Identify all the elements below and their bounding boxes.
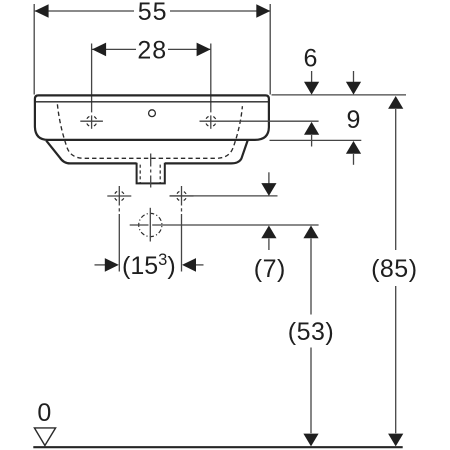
dimension (15³): right arrow with tail bbox=[195, 264, 204, 266]
svg-text:55: 55 bbox=[138, 0, 168, 26]
dimension 6: bottom arrow with tail bbox=[311, 135, 313, 147]
left faucet hole crosshair bbox=[80, 116, 103, 127]
dimension 55: right arrow bbox=[256, 4, 270, 18]
dimension 9: top arrow with tail bbox=[353, 71, 355, 83]
trap hidden circle (dashed) bbox=[139, 213, 162, 236]
dimension (7): bottom arrow with tail bbox=[268, 239, 270, 251]
dimension (7): bottom extension line (trap center level) bbox=[130, 224, 149, 226]
extension line A (basin top level, right) bbox=[272, 94, 407, 96]
left fixing hole crosshair bbox=[107, 191, 131, 201]
extension line C (rim bottom level, right) bbox=[270, 139, 362, 141]
dimension 9: bottom arrow with tail bbox=[353, 154, 355, 165]
bowl hidden contour (dashed) bbox=[57, 104, 242, 158]
fixing hole extension line left bbox=[118, 186, 120, 272]
floor line bbox=[33, 446, 402, 448]
washbasin apron right slope bbox=[165, 141, 248, 164]
dimension 6: top arrow with tail bbox=[311, 71, 313, 83]
svg-text:28: 28 bbox=[137, 36, 167, 64]
dimension (15³): left arrow with tail bbox=[95, 264, 107, 266]
dimension 55: left arrow bbox=[35, 4, 49, 18]
dimension 55: extension line right bbox=[269, 4, 271, 95]
dimension 28: extension line right (to right faucet hole) bbox=[210, 44, 212, 113]
dimension 55: dimension line bbox=[35, 10, 134, 12]
svg-text:(85): (85) bbox=[371, 255, 417, 283]
dimension (85): dimension line with top/bottom arrows bbox=[395, 109, 397, 250]
washbasin rim body outline bbox=[35, 95, 269, 139]
svg-text:(53): (53) bbox=[288, 318, 334, 346]
svg-text:0: 0 bbox=[37, 399, 51, 427]
drain bore hidden lines (dashed) bbox=[139, 165, 141, 183]
dimension (53): dimension line with top/bottom arrows bbox=[310, 239, 312, 315]
right fixing hole crosshair bbox=[170, 191, 194, 201]
dimension (7): top arrow with tail bbox=[268, 172, 270, 184]
svg-text:9: 9 bbox=[347, 106, 361, 134]
drain stub outline bbox=[137, 163, 165, 184]
right faucet hole crosshair bbox=[200, 116, 319, 127]
dimension 28: right arrow bbox=[197, 43, 211, 57]
washbasin inner rim line bbox=[36, 101, 268, 103]
dimension 28: extension line left (to left faucet hole) bbox=[91, 44, 93, 113]
trap vertical center line bbox=[149, 208, 151, 242]
svg-text:(153): (153) bbox=[122, 251, 176, 280]
dimension 28: left arrow bbox=[92, 43, 106, 57]
dimension 55: extension line left bbox=[33, 4, 35, 95]
datum triangle symbol bbox=[34, 428, 55, 446]
dimension 28: dimension line bbox=[92, 48, 136, 50]
dimension (7): top extension line (drain stub bottom level) bbox=[170, 195, 278, 197]
svg-text:6: 6 bbox=[304, 45, 318, 73]
overflow hole circle bbox=[149, 110, 156, 117]
drain center line bbox=[150, 154, 152, 188]
washbasin apron left slope bbox=[46, 141, 136, 164]
svg-text:(7): (7) bbox=[254, 255, 286, 283]
fixing hole extension line right bbox=[181, 186, 183, 272]
